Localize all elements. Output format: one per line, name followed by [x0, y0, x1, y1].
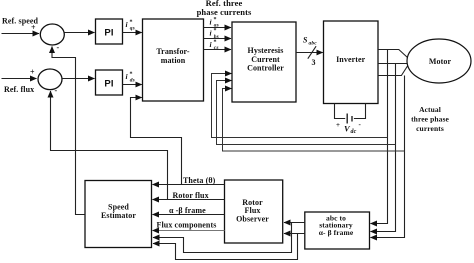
wire alpha-beta frame observer to estimator: [153, 214, 225, 216]
block PI2: [96, 70, 123, 95]
svg-text:Inverter: Inverter: [336, 55, 366, 64]
svg-text:i: i: [126, 72, 129, 81]
block Transformation: [143, 19, 204, 101]
svg-text:+: +: [31, 23, 36, 32]
block Inverter: [324, 21, 379, 104]
wire Rotor flux observer to estimator: [153, 199, 225, 201]
svg-text:abc: abc: [309, 41, 318, 47]
svg-text:i: i: [210, 29, 213, 38]
svg-text:i: i: [210, 17, 213, 26]
block Rotor Flux Observer: [225, 180, 283, 243]
wire theta branch to Transformation: [131, 98, 182, 185]
svg-text:Ref. flux: Ref. flux: [4, 85, 34, 94]
wire PI1 to Transformation: [123, 32, 142, 34]
wire inverter phase a to motor: [378, 50, 408, 58]
svg-text:Motor: Motor: [429, 57, 452, 66]
wire inverter phase b to motor: [378, 63, 407, 65]
wire rotor flux feedback to summing junction 2: [51, 91, 168, 200]
wire current sense a down to abc block: [371, 50, 388, 224]
label - battery: [359, 121, 362, 129]
plus sign summing junction 2: [30, 68, 35, 77]
plus sign summing junction 1: [31, 23, 36, 32]
label i*cs: [210, 40, 219, 52]
label i*bs: [210, 28, 219, 40]
svg-text:-: -: [57, 43, 60, 52]
label Vdc: [344, 124, 357, 136]
label i*ds: [126, 72, 135, 84]
wire current a feedback to Hysteresis: [212, 74, 388, 138]
wire reference flux input: [2, 78, 37, 80]
wire current b feedback to Hysteresis: [217, 81, 396, 145]
svg-text:+: +: [30, 68, 35, 77]
label Ref. three phase currents: [197, 0, 252, 17]
summing junction 1: [40, 24, 64, 45]
svg-text:ds: ds: [130, 78, 135, 84]
wire abc block alpha output to observer: [284, 222, 305, 224]
label i*as: [210, 17, 219, 29]
svg-text:dc: dc: [351, 129, 357, 135]
svg-text:Rotor flux: Rotor flux: [173, 191, 209, 200]
wire PI2 to Transformation: [123, 84, 142, 86]
label Rotor flux: [173, 191, 209, 200]
svg-text:Actual: Actual: [419, 105, 441, 114]
wire alpha current routed to estimator: [153, 223, 292, 253]
svg-text:phase currents: phase currents: [197, 7, 252, 17]
wire Theta observer to estimator: [153, 184, 225, 186]
wire i*cs Transformation to Hysteresis: [204, 49, 232, 51]
label Ref. speed: [2, 17, 39, 26]
label Ref. flux: [4, 85, 34, 94]
svg-text:S: S: [303, 36, 308, 45]
label Flux components: [157, 221, 217, 230]
svg-text:α- β frame: α- β frame: [319, 228, 354, 237]
wire i*bs Transformation to Hysteresis: [204, 38, 232, 40]
wire beta current routed to estimator: [153, 234, 298, 260]
wire current sense b down to abc block: [371, 64, 396, 232]
label + battery: [336, 121, 340, 129]
wire current sense c down to abc block: [371, 76, 405, 238]
wire Sabc Hysteresis to Inverter: [296, 52, 323, 54]
svg-text:i: i: [126, 20, 129, 29]
svg-text:+: +: [336, 121, 340, 129]
svg-text:currents: currents: [416, 124, 444, 133]
svg-text:i: i: [210, 40, 213, 49]
svg-text:mation: mation: [161, 56, 186, 65]
wire reference speed input: [2, 33, 40, 35]
wire Flux components observer to estimator: [153, 230, 225, 232]
svg-text:-: -: [359, 121, 362, 129]
motor: [407, 39, 471, 83]
svg-text:α -β frame: α -β frame: [169, 206, 206, 215]
block PI1: [96, 19, 123, 44]
minus sign summing junction 1: [57, 43, 60, 52]
wire inverter phase c to motor: [378, 66, 408, 76]
block abc to stationary alpha-beta frame: [305, 212, 370, 249]
wire summing junction 2 to PI2: [62, 78, 95, 80]
label alpha-beta frame: [169, 206, 206, 215]
svg-text:Flux components: Flux components: [157, 221, 217, 230]
svg-text:three phase: three phase: [411, 115, 449, 124]
wire summing junction 1 to PI1: [64, 32, 94, 34]
block Speed Estimator: [85, 181, 152, 248]
label Actual three phase currents: [411, 105, 449, 133]
svg-text:cs: cs: [214, 45, 219, 51]
battery Vdc: [335, 104, 366, 124]
svg-text:Current: Current: [251, 55, 280, 64]
block Hysteresis Current Controller: [232, 22, 296, 102]
wire speed feedback to summing junction 1: [52, 47, 85, 215]
slash 3 bus marker: [308, 46, 316, 67]
svg-text:3: 3: [312, 58, 316, 67]
svg-text:Transfor-: Transfor-: [156, 47, 190, 56]
svg-text:-: -: [55, 86, 58, 95]
svg-text:qs: qs: [130, 26, 135, 32]
wire i*as Transformation to Hysteresis: [204, 27, 232, 29]
wire abc block beta output to observer: [284, 233, 305, 235]
svg-text:PI: PI: [104, 79, 113, 90]
label i*qs: [126, 20, 135, 32]
svg-text:Controller: Controller: [247, 64, 284, 73]
label Sabc: [303, 36, 317, 47]
wire current c feedback to Hysteresis: [223, 89, 405, 152]
svg-text:Estimator: Estimator: [101, 211, 136, 220]
minus sign summing junction 2: [55, 86, 58, 95]
svg-text:PI: PI: [104, 28, 113, 39]
svg-text:Observer: Observer: [236, 215, 269, 224]
svg-text:Theta (θ): Theta (θ): [183, 176, 216, 185]
svg-text:Hysteresis: Hysteresis: [248, 46, 284, 55]
label Theta: [183, 176, 216, 185]
summing junction 2: [38, 69, 62, 90]
